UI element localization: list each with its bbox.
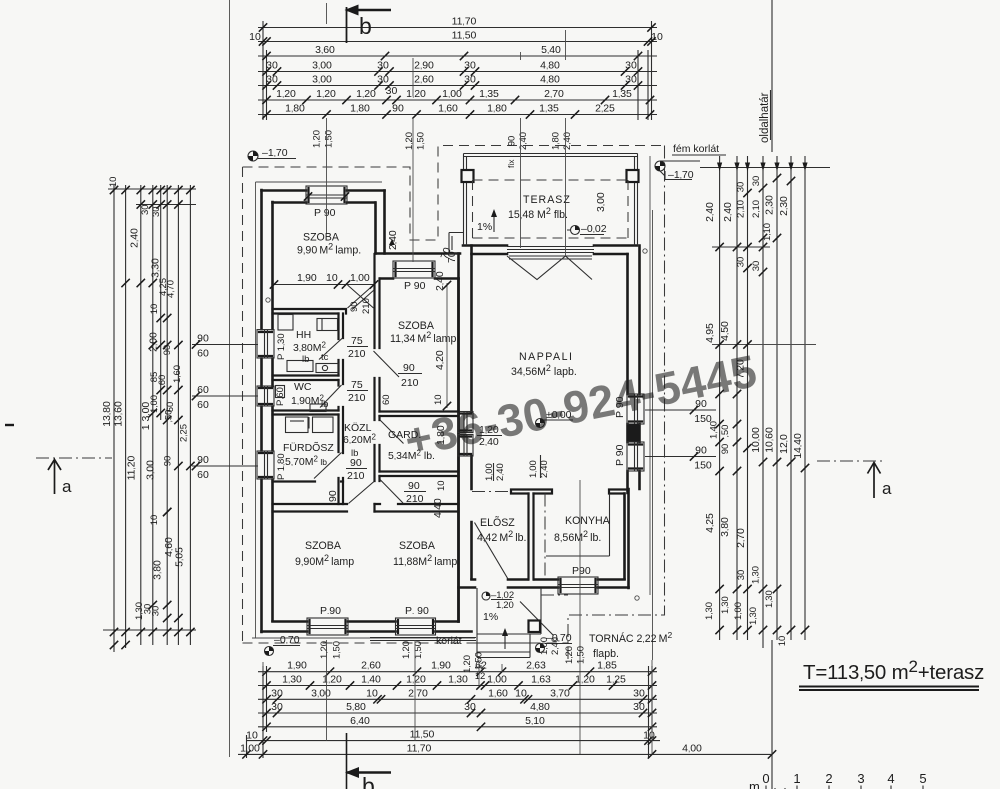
left block top horizontal connector — [108, 189, 196, 205]
plaster thin outline north — [256, 181, 383, 183]
svg-text:4,40: 4,40 — [432, 498, 444, 518]
window west WC 60/60 — [257, 386, 274, 406]
svg-text:2,40: 2,40 — [518, 132, 529, 150]
top row6 1,20x3 30 1,20 1,00 1,35 2,70 1,35 — [262, 96, 270, 104]
wall NAPPALI west band inner — [459, 246, 472, 622]
konyha counter lines — [546, 494, 610, 557]
svg-text:10: 10 — [326, 272, 338, 284]
svg-text:30: 30 — [625, 60, 637, 72]
top block left vertical connector — [263, 21, 267, 120]
entrance door diagonal tornac — [520, 602, 554, 636]
svg-text:90: 90 — [197, 454, 209, 466]
door SZOBA 9,90 top diagonal — [348, 285, 374, 308]
small circle o konyha SE — [635, 596, 639, 600]
niche step notch east — [449, 233, 464, 255]
svg-text:T=113,50 m2+terasz: T=113,50 m2+terasz — [803, 657, 984, 684]
svg-text:2,63: 2,63 — [526, 660, 546, 672]
svg-text:3: 3 — [857, 771, 864, 786]
svg-text:2,25: 2,25 — [179, 424, 190, 442]
svg-text:2,70: 2,70 — [408, 687, 428, 699]
dim line 4,20 vertical SZOBA 11,34 — [446, 283, 448, 408]
wall konyha east band — [625, 489, 629, 588]
svg-text:60: 60 — [197, 348, 209, 360]
svg-text:1: 1 — [793, 771, 800, 786]
svg-text:30: 30 — [751, 176, 762, 187]
svg-text:10: 10 — [249, 31, 261, 43]
svg-text:1,20: 1,20 — [462, 655, 473, 673]
wall NAPPALI north segments beside terasz door — [463, 246, 637, 255]
svg-text:–0,70: –0,70 — [274, 634, 300, 646]
svg-text:2,10: 2,10 — [736, 200, 747, 218]
svg-text:3,30: 3,30 — [150, 258, 162, 278]
svg-text:13,80: 13,80 — [101, 401, 113, 427]
svg-text:4,80: 4,80 — [540, 60, 560, 72]
marker -1,70 top-left — [248, 151, 258, 161]
section marker b bottom — [346, 733, 348, 789]
sill under terasz door — [509, 256, 592, 259]
svg-text:2,60: 2,60 — [414, 74, 434, 86]
svg-text:4,25: 4,25 — [704, 513, 716, 533]
svg-text:1,50: 1,50 — [416, 132, 427, 150]
svg-text:4,80: 4,80 — [540, 74, 560, 86]
door crossing marks KOZL top — [348, 285, 375, 310]
svg-text:,50: ,50 — [720, 425, 731, 438]
vertical reference lines from plan to bottom block — [263, 640, 652, 754]
partition GARD south — [380, 472, 459, 477]
svg-text:3,00: 3,00 — [311, 687, 331, 699]
svg-text:a: a — [882, 479, 892, 498]
svg-text:1,35: 1,35 — [479, 88, 499, 100]
svg-text:TERASZ: TERASZ — [523, 194, 571, 206]
right dimension block vertical lines — [719, 163, 721, 640]
wall east exterior inner line — [626, 254, 629, 493]
svg-text:1,00: 1,00 — [149, 395, 160, 413]
svg-text:1,10: 1,10 — [762, 223, 773, 241]
svg-text:60: 60 — [197, 384, 209, 396]
marker -1,02 entrance — [482, 592, 490, 600]
scale bar ticks — [766, 786, 923, 789]
left leader 90/60 FURDOSZ window — [192, 465, 258, 467]
eaves dashed outline top — [243, 146, 665, 241]
vertical reference lines from top block into plan — [327, 30, 566, 262]
top row4 30 3,00 30 / 2,90 / 30 4,80 30 — [262, 67, 270, 75]
FURDOSZ basin left square — [286, 417, 309, 433]
svg-text:SZOBA: SZOBA — [399, 540, 436, 552]
svg-text:tc: tc — [321, 352, 329, 363]
svg-text:1,20: 1,20 — [312, 130, 323, 148]
bottom row2 1,30 1,20 1,40 1,20 1,30 12 1,00 1,63 1,20 1,25 — [262, 681, 270, 689]
terasz post right — [627, 170, 639, 182]
partition vertical HH-WC-FURDOSZ east — [339, 314, 344, 505]
wall north exterior outer line — [262, 189, 385, 192]
plaster thin outline south — [252, 637, 475, 639]
svg-text:lb: lb — [302, 354, 309, 365]
wall south exterior inner line — [273, 620, 459, 623]
svg-text:210: 210 — [406, 493, 424, 505]
svg-text:2,00: 2,00 — [148, 332, 160, 352]
partition FURDOSZ south — [273, 480, 344, 482]
svg-text:–0,02: –0,02 — [581, 223, 607, 235]
svg-text:30: 30 — [633, 687, 645, 699]
svg-text:4,80: 4,80 — [530, 701, 550, 713]
svg-text:1,20: 1,20 — [575, 674, 595, 686]
svg-text:30: 30 — [736, 257, 747, 268]
svg-text:1,20: 1,20 — [356, 88, 376, 100]
wall west exterior outer line — [260, 190, 263, 632]
stair arrow tornac — [504, 630, 506, 649]
marker -1,70 top-right — [655, 161, 665, 171]
svg-text:30: 30 — [140, 204, 151, 215]
svg-text:11,34 M2 lamp.: 11,34 M2 lamp. — [390, 330, 459, 345]
svg-text:30: 30 — [633, 701, 645, 713]
east wall pier filled between windows — [629, 424, 640, 442]
bottom row3 30 3,00 10 2,70 1,60 10 3,70 30 — [262, 695, 270, 703]
svg-text:3,60: 3,60 — [315, 44, 335, 56]
svg-text:1,63: 1,63 — [531, 674, 551, 686]
svg-text:210: 210 — [361, 298, 372, 314]
svg-text:WC: WC — [294, 381, 312, 393]
top row7 1,80 1,80 90 1,60 1,80 1,35 2,25 — [262, 110, 270, 118]
HH sink unit bottom-right — [316, 364, 338, 373]
door HH diagonal — [319, 338, 343, 360]
WC basin left — [276, 386, 285, 398]
svg-text:14,40: 14,40 — [792, 433, 804, 459]
partition GARD north — [380, 412, 459, 417]
eaves dashed outline bottom — [243, 642, 569, 644]
svg-text:FÜRDÕSZ: FÜRDÕSZ — [283, 441, 334, 454]
door FURDOSZ diagonal — [314, 453, 342, 479]
right block top horizontal connector — [700, 167, 830, 169]
svg-text:1,30: 1,30 — [720, 596, 731, 614]
svg-text:–1,70: –1,70 — [262, 147, 288, 159]
partition ELOSZ / KONYHA vertical — [529, 494, 534, 580]
HH counter bottom-left — [287, 361, 313, 372]
wall NAPPALI west band outer — [457, 254, 460, 622]
svg-text:NAPPALI: NAPPALI — [519, 351, 573, 363]
svg-text:30: 30 — [266, 60, 278, 72]
wall east exterior outer line — [638, 246, 641, 490]
window west HH 90/60 — [257, 330, 274, 358]
wall south of ELOSZ and KONYHA outer — [459, 586, 629, 589]
svg-text:11,50: 11,50 — [452, 30, 477, 42]
svg-text:1%: 1% — [477, 221, 492, 233]
left block ticks bottom — [110, 628, 118, 636]
svg-text:1,80: 1,80 — [350, 103, 370, 115]
svg-text:1,80: 1,80 — [285, 103, 305, 115]
eaves dashed outline left — [242, 167, 244, 643]
marker +-0,00 nappali — [536, 419, 545, 428]
svg-text:10: 10 — [777, 636, 788, 647]
bottom row7 1,00 11,70 4,00 — [242, 750, 250, 758]
svg-text:1,00: 1,00 — [350, 272, 370, 284]
left block intermediate ticks — [121, 279, 129, 287]
svg-text:30: 30 — [377, 74, 389, 86]
svg-text:2,40: 2,40 — [704, 202, 716, 222]
svg-text:0: 0 — [762, 771, 769, 786]
svg-text:11,88M2 lamp: 11,88M2 lamp — [393, 553, 457, 568]
svg-text:2,60: 2,60 — [361, 660, 381, 672]
svg-text:2,40: 2,40 — [722, 202, 734, 222]
konyha open side dash-dot — [544, 494, 546, 580]
svg-text:4: 4 — [887, 771, 894, 786]
svg-text:P 1,80: P 1,80 — [276, 453, 287, 480]
svg-text:1,90M2: 1,90M2 — [291, 394, 325, 408]
svg-text:5: 5 — [919, 771, 926, 786]
svg-text:1,50: 1,50 — [332, 641, 343, 659]
svg-text:11,50: 11,50 — [410, 729, 435, 741]
svg-text:flapb.: flapb. — [593, 648, 619, 660]
window NAPPALI west wall 120/240 — [458, 412, 473, 457]
svg-text:13,60: 13,60 — [113, 401, 125, 427]
svg-text:30: 30 — [625, 74, 637, 86]
svg-text:2,70: 2,70 — [544, 88, 564, 100]
svg-text:1,40: 1,40 — [361, 674, 381, 686]
svg-text:P 90: P 90 — [614, 396, 626, 418]
svg-text:10: 10 — [149, 304, 160, 315]
svg-text:KÖZL: KÖZL — [344, 422, 372, 434]
svg-text:30: 30 — [386, 85, 398, 97]
svg-text:6,40: 6,40 — [350, 715, 370, 727]
svg-text:2,40: 2,40 — [129, 228, 141, 248]
window east NAPPALI lower 90/150 — [627, 442, 644, 471]
svg-text:10,00: 10,00 — [750, 427, 762, 453]
svg-text:4,00: 4,00 — [682, 742, 702, 754]
tornac slab dashed boundary — [541, 594, 568, 596]
bottom block vertical connectors — [247, 666, 653, 758]
terasz door opening thin lines — [507, 247, 594, 253]
section marker b top — [346, 7, 348, 43]
left leader 90/60 HH window — [192, 344, 258, 346]
svg-text:1,90: 1,90 — [431, 660, 451, 672]
svg-text:2,90: 2,90 — [414, 60, 434, 72]
svg-text:90: 90 — [408, 480, 420, 492]
svg-text:34,56M2 lapb.: 34,56M2 lapb. — [511, 363, 577, 378]
svg-text:90: 90 — [392, 103, 404, 115]
terasz outer edge double line — [464, 154, 638, 246]
top row2 11,50 — [259, 37, 267, 45]
door WC diagonal — [320, 385, 342, 408]
svg-text:1,00: 1,00 — [240, 742, 260, 754]
svg-text:10: 10 — [366, 687, 378, 699]
svg-text:75: 75 — [351, 335, 363, 347]
svg-text:30: 30 — [751, 261, 762, 272]
partition vertical KOZL east — [375, 254, 380, 512]
svg-text:P 90: P 90 — [614, 444, 626, 466]
right leader 90/150 upper window — [645, 409, 716, 411]
svg-text:3,00: 3,00 — [595, 192, 607, 212]
right block small ticks — [743, 189, 751, 197]
window south SZOBA bottom-mid P.90 — [396, 618, 436, 635]
window south KONYHA P90 — [558, 577, 598, 594]
svg-text:2,30: 2,30 — [764, 195, 776, 215]
svg-text:10: 10 — [651, 31, 663, 43]
svg-text:P 90: P 90 — [314, 207, 336, 219]
partition HH / WC — [273, 376, 339, 381]
partition NAPPALI south stub east — [609, 490, 629, 494]
door SZOBA bottom-mid diagonal — [380, 480, 403, 504]
svg-text:1,80: 1,80 — [551, 132, 562, 150]
marker -0,70 bottom-left corner — [265, 647, 274, 656]
svg-text:1,20: 1,20 — [276, 88, 296, 100]
svg-text:30: 30 — [736, 182, 747, 193]
wall north of SZOBA 11,34 inner line — [380, 277, 459, 280]
svg-text:30: 30 — [266, 74, 278, 86]
small circle o nappali NE — [643, 249, 647, 253]
svg-text:30: 30 — [151, 606, 162, 617]
right leader 90/150 lower window — [645, 456, 716, 458]
opening NAPPALI to ELOSZ dash-dot — [472, 491, 511, 493]
window east NAPPALI upper 90/150 — [627, 394, 644, 424]
window south SZOBA bottom-left P.90 — [307, 618, 348, 635]
svg-text:1,90: 1,90 — [297, 272, 317, 284]
window P90 north SZOBA 11,34 — [393, 261, 435, 278]
vertical ref line konyha window center — [579, 480, 581, 755]
terasz post left — [462, 170, 474, 182]
svg-text:1,20: 1,20 — [322, 674, 342, 686]
svg-text:10: 10 — [433, 394, 444, 405]
svg-text:5,10: 5,10 — [525, 715, 545, 727]
svg-text:30: 30 — [464, 60, 476, 72]
svg-text:lb: lb — [321, 399, 328, 410]
svg-text:1,90: 1,90 — [287, 660, 307, 672]
svg-text:90: 90 — [327, 490, 339, 502]
svg-text:150: 150 — [694, 413, 712, 425]
bottom row5 6,40 5,10 — [262, 723, 270, 731]
svg-text:1,30: 1,30 — [704, 602, 715, 620]
svg-text:KONYHA: KONYHA — [565, 515, 611, 527]
svg-text:30: 30 — [736, 570, 747, 581]
svg-text:,50: ,50 — [164, 410, 175, 423]
svg-text:2,40: 2,40 — [434, 271, 446, 291]
svg-text:1,60: 1,60 — [438, 103, 458, 115]
svg-text:P90: P90 — [572, 565, 591, 577]
svg-text:2,30: 2,30 — [778, 196, 790, 216]
stray mark left edge — [5, 424, 14, 426]
marker -0,70 tornac — [536, 644, 545, 653]
svg-text:1,00: 1,00 — [487, 674, 507, 686]
top block right vertical connector — [638, 21, 652, 120]
svg-text:1,30: 1,30 — [282, 674, 302, 686]
svg-text:HH: HH — [296, 329, 311, 341]
svg-text:1,20: 1,20 — [496, 600, 514, 611]
korlat railing line south — [370, 638, 476, 641]
oldalhatar boundary line — [771, 0, 773, 789]
section marker a left — [36, 457, 112, 459]
svg-text:1,20: 1,20 — [316, 88, 336, 100]
svg-text:1,80: 1,80 — [487, 103, 507, 115]
top row5 30 3,00 30 / 2,60 / 30 4,80 30 — [262, 81, 270, 89]
svg-text:10: 10 — [643, 730, 655, 742]
top row3 3,60 / 5,40 — [262, 52, 270, 60]
svg-text:10: 10 — [515, 687, 527, 699]
svg-text:210: 210 — [348, 348, 366, 360]
svg-text:1,30: 1,30 — [748, 607, 759, 625]
window P90 north SZOBA 9,90 — [304, 186, 349, 204]
svg-text:5,40: 5,40 — [541, 44, 561, 56]
svg-text:60: 60 — [197, 399, 209, 411]
svg-text:4,50: 4,50 — [719, 321, 731, 341]
svg-text:TORNÁC 2,22 M2: TORNÁC 2,22 M2 — [589, 630, 672, 645]
svg-text:90: 90 — [507, 136, 518, 147]
svg-text:12,0: 12,0 — [778, 434, 790, 454]
svg-text:10: 10 — [246, 730, 258, 742]
svg-text:2,40: 2,40 — [550, 637, 561, 655]
eaves thin line right of east wall — [650, 156, 653, 660]
door ELOSZ inner diagonal — [475, 523, 509, 580]
svg-text:1,50: 1,50 — [576, 646, 587, 664]
svg-text:60: 60 — [381, 394, 392, 405]
wall south exterior outer line — [262, 630, 472, 633]
svg-text:–1,70: –1,70 — [668, 169, 694, 181]
partition SZOBA 9,90 south — [273, 309, 347, 314]
svg-text:1,20: 1,20 — [401, 641, 412, 659]
wall south of ELOSZ and KONYHA inner — [472, 578, 625, 581]
svg-text:P 90: P 90 — [404, 280, 426, 292]
svg-text:1,30: 1,30 — [448, 674, 468, 686]
partition corridor south / SZOBA bottom north — [273, 504, 459, 512]
svg-text:fix: fix — [506, 159, 516, 168]
svg-text:90: 90 — [403, 362, 415, 374]
right block second connector terasz bottom — [712, 246, 770, 248]
boundary dash-dot line left of eaves — [229, 0, 231, 757]
svg-text:2,40: 2,40 — [387, 230, 399, 250]
svg-text:30: 30 — [464, 701, 476, 713]
svg-text:30: 30 — [271, 701, 283, 713]
svg-text:210: 210 — [401, 377, 419, 389]
WC toilet — [310, 404, 326, 412]
svg-text:5,05: 5,05 — [174, 547, 186, 567]
plaster thin outline west — [255, 182, 257, 638]
svg-text:12: 12 — [475, 671, 486, 682]
svg-text:3,80: 3,80 — [719, 517, 731, 537]
svg-text:60: 60 — [197, 469, 209, 481]
bottom row1 1,90 2,60 1,90 62 2,63 1,85 — [262, 668, 270, 676]
left dimension block vertical lines — [113, 185, 115, 652]
tornac steps — [477, 588, 541, 658]
top row1 11,70 — [259, 23, 267, 31]
svg-text:1,20: 1,20 — [406, 88, 426, 100]
svg-text:1,30: 1,30 — [764, 590, 775, 608]
svg-text:11,70: 11,70 — [452, 16, 477, 28]
svg-text:SZOBA: SZOBA — [303, 232, 340, 244]
partition WC / FURDOSZ — [273, 411, 339, 415]
bottom dimension block lines — [258, 671, 657, 673]
svg-text:30: 30 — [377, 60, 389, 72]
marker -0,02 terasz — [571, 226, 580, 235]
FURDOSZ tub mark — [308, 417, 310, 429]
svg-text:60: 60 — [157, 375, 168, 386]
left block bottom connector — [103, 629, 196, 631]
svg-text:6,20M2: 6,20M2 — [343, 433, 377, 447]
svg-text:b: b — [359, 13, 372, 39]
door GARD diagonal — [380, 420, 404, 444]
svg-text:1,30: 1,30 — [751, 566, 762, 584]
svg-text:1,20: 1,20 — [564, 646, 575, 664]
left block ticks top — [110, 186, 118, 194]
svg-text:90: 90 — [163, 456, 174, 467]
svg-text:2,40: 2,40 — [495, 463, 506, 481]
top dimension block lines — [258, 27, 657, 29]
svg-text:90: 90 — [720, 444, 731, 455]
svg-text:a: a — [62, 477, 72, 496]
svg-text:1,00: 1,00 — [528, 460, 539, 478]
HH cabinet top-right — [317, 319, 338, 331]
svg-text:11,20: 11,20 — [126, 455, 138, 480]
svg-text:fém korlát: fém korlát — [673, 143, 719, 155]
svg-text:5,80: 5,80 — [346, 701, 366, 713]
svg-text:90: 90 — [350, 457, 362, 469]
terasz door swing triangles — [507, 256, 592, 280]
